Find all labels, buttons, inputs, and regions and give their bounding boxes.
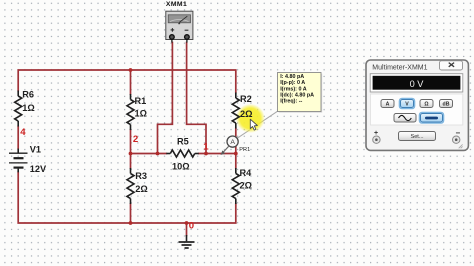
svg-text:1: 1 [203,142,209,153]
svg-text:R6: R6 [22,90,34,100]
svg-text:R5: R5 [177,137,189,147]
svg-text:10Ω: 10Ω [172,162,190,172]
svg-text:Multimeter-XMM1: Multimeter-XMM1 [372,64,427,71]
svg-text:dB: dB [443,102,450,108]
svg-text:I(freq): --: I(freq): -- [280,99,302,105]
svg-text:R1: R1 [135,96,147,106]
svg-text:12V: 12V [30,164,47,174]
svg-text:2Ω: 2Ω [135,184,147,194]
svg-text:0: 0 [189,220,194,231]
svg-text:0 V: 0 V [410,79,425,89]
svg-text:1Ω: 1Ω [135,109,147,119]
svg-text:Set...: Set... [410,134,424,140]
svg-text:A: A [230,139,235,146]
svg-text:4: 4 [20,127,26,138]
svg-text:I: 4.80 pA: I: 4.80 pA [280,74,304,80]
svg-text:XMM1: XMM1 [166,1,187,8]
svg-text:I(p-p): 0 A: I(p-p): 0 A [280,80,305,86]
svg-text:R2: R2 [240,94,252,104]
svg-text:2: 2 [133,134,138,145]
svg-text:PR1: PR1 [239,147,250,153]
svg-text:2Ω: 2Ω [240,181,252,191]
svg-text:Ω: Ω [424,102,428,108]
svg-text:2Ω: 2Ω [240,109,252,119]
svg-text:R3: R3 [135,171,147,181]
svg-text:1Ω: 1Ω [22,103,34,113]
svg-text:V: V [405,102,409,108]
svg-text:A: A [386,102,390,108]
svg-text:R4: R4 [240,168,253,178]
svg-text:V1: V1 [30,145,41,155]
svg-text:I(dc): 4.80 pA: I(dc): 4.80 pA [280,93,314,99]
svg-text:I(rms): 0 A: I(rms): 0 A [280,86,307,92]
